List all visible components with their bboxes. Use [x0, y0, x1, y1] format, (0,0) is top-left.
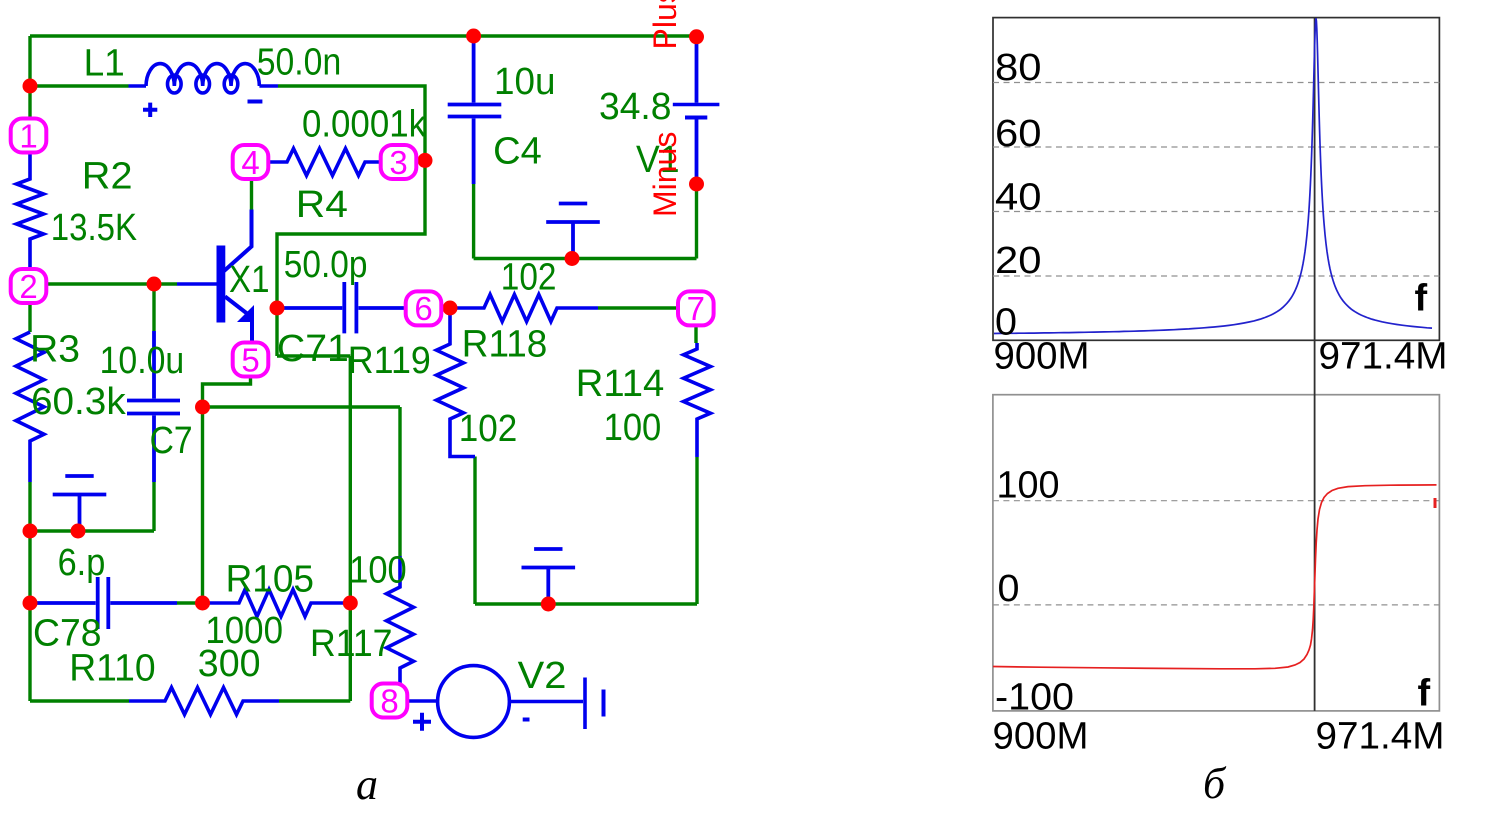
svg-text:4: 4 [241, 144, 259, 181]
resistor R114 [684, 343, 711, 457]
svg-text:300: 300 [198, 643, 261, 685]
capacitor C78 [30, 577, 177, 629]
svg-text:0: 0 [998, 568, 1020, 610]
svg-text:971.4M: 971.4M [1319, 336, 1448, 378]
chart 1 gridlines [993, 83, 1439, 277]
junction node1-L1 [23, 79, 38, 94]
svg-text:V2: V2 [518, 655, 567, 697]
svg-text:R119: R119 [348, 340, 431, 382]
wire R119 bottom rail [473, 457, 476, 605]
node 8 [372, 682, 408, 719]
svg-text:50.0p: 50.0p [284, 244, 368, 286]
wire junction down to C7 [152, 284, 155, 331]
junction bottom right ground [541, 597, 556, 612]
svg-text:34.8: 34.8 [599, 86, 672, 128]
svg-text:L1: L1 [84, 43, 125, 85]
resistor R4 [268, 149, 381, 176]
svg-text:60: 60 [995, 113, 1042, 155]
svg-text:Plus: Plus [647, 0, 683, 50]
battery V1 [673, 37, 720, 184]
svg-text:f: f [1415, 277, 1428, 319]
junction top V1 [689, 29, 704, 44]
V2 minus mark [523, 718, 530, 722]
wire node4 to collector [250, 177, 253, 210]
wire L1 to node3 rail and down to C71 [277, 86, 425, 356]
svg-text:100: 100 [604, 407, 662, 449]
junction left ground [71, 524, 86, 539]
chart 1 curve [994, 18, 1432, 333]
svg-text:60.3k: 60.3k [31, 381, 127, 423]
chart 2 gridlines [993, 501, 1440, 605]
svg-text:100: 100 [997, 465, 1060, 507]
wire C4 bottom rail [472, 184, 475, 259]
svg-text:C4: C4 [493, 130, 542, 172]
L1 plus terminal mark [143, 103, 157, 117]
svg-text:900M: 900M [993, 716, 1089, 758]
svg-text:6.p: 6.p [58, 542, 106, 584]
inductor L1 [129, 64, 279, 93]
cursor line [1314, 18, 1316, 711]
chart 1 frame [993, 18, 1439, 341]
wire R110 to x350 [279, 699, 350, 702]
svg-text:R118: R118 [462, 323, 548, 365]
chart 2 right edge tick [1434, 498, 1437, 508]
junction mid ground [565, 251, 580, 266]
svg-text:R114: R114 [576, 363, 665, 405]
ground bottom right [522, 549, 576, 604]
wire top rail [30, 34, 697, 37]
svg-text:80: 80 [995, 47, 1042, 89]
svg-text:20: 20 [995, 240, 1042, 282]
wire C78 to R105 junction [177, 601, 203, 604]
junction C71 left [270, 301, 285, 316]
svg-text:C7: C7 [150, 420, 193, 462]
svg-text:971.4M: 971.4M [1316, 716, 1445, 758]
wire R114 bottom lead rail [695, 457, 698, 604]
resistor R105 [203, 590, 350, 617]
svg-text:X1: X1 [229, 259, 270, 301]
svg-text:900M: 900M [994, 336, 1090, 378]
wire bottom to R110 [30, 699, 129, 702]
svg-text:10.0u: 10.0u [100, 340, 185, 382]
junction x202 top [195, 400, 210, 415]
node 4 [233, 144, 269, 181]
wire node2 to base junction [45, 282, 177, 285]
junction node6-R118-R119 [443, 301, 458, 316]
ground left [53, 476, 107, 531]
junction left rail C7 [23, 524, 38, 539]
node 2 [11, 268, 47, 305]
svg-text:R110: R110 [69, 647, 155, 689]
chart 2 frame [993, 395, 1440, 711]
wire R118 to node7 [598, 306, 679, 309]
wire x400 to R117 [398, 407, 401, 556]
junction C78-R105 [195, 596, 210, 611]
resistor R3 [16, 332, 44, 482]
svg-text:13.5K: 13.5K [51, 207, 137, 249]
ground mid [546, 204, 600, 259]
wire left rail lower [28, 482, 31, 701]
svg-text:6: 6 [414, 290, 432, 327]
capacitor C7 [127, 331, 180, 482]
wire vertical x350 [349, 356, 352, 701]
wire junction x202 vertical [201, 407, 204, 603]
capacitor C71 [277, 282, 406, 333]
svg-text:f: f [1418, 673, 1431, 715]
wire node7 to R114 [694, 324, 697, 343]
transistor X1 [217, 210, 255, 344]
svg-text:Minus: Minus [647, 132, 683, 217]
junction V1 minus [689, 177, 704, 192]
svg-text:R2: R2 [82, 155, 133, 197]
resistor R110 [129, 688, 279, 715]
wire mid rail under C4 [474, 257, 697, 260]
wire V1 minus rail [695, 184, 698, 259]
source V2 [406, 666, 603, 738]
chart 2 curve [993, 485, 1437, 669]
svg-text:2: 2 [19, 268, 37, 305]
junction top C4 [466, 29, 481, 44]
wire base lead of X1 [177, 282, 217, 286]
node 3 [381, 144, 417, 181]
wire C7 bottom to left rail [30, 482, 154, 531]
junction R105-x350 [343, 596, 358, 611]
junction left rail C78 [23, 596, 38, 611]
svg-text:1: 1 [19, 117, 37, 154]
V2 plus mark [413, 713, 431, 731]
wire node5 to junction [203, 375, 251, 407]
L1 minus terminal mark [248, 100, 263, 104]
svg-text:8: 8 [380, 682, 398, 719]
wire left rail upper (to node 1) [28, 36, 31, 120]
resistor R119 [437, 308, 476, 457]
svg-text:R3: R3 [30, 329, 80, 371]
svg-text:0.0001k: 0.0001k [302, 103, 427, 145]
resistor R117 [387, 556, 414, 685]
svg-text:R105: R105 [226, 559, 314, 601]
junction node3 [418, 153, 433, 168]
capacitor C4 [448, 36, 502, 184]
junction base [147, 277, 162, 292]
node 1 [11, 117, 47, 154]
svg-text:а: а [356, 760, 378, 809]
node 5 [233, 341, 269, 378]
svg-text:10u: 10u [494, 61, 556, 103]
svg-text:5: 5 [241, 341, 259, 378]
svg-text:R4: R4 [296, 184, 348, 226]
wire node2 to R3 [28, 301, 31, 332]
svg-text:100: 100 [349, 550, 407, 592]
node 7 [678, 290, 714, 327]
svg-text:102: 102 [459, 408, 518, 450]
svg-text:C71: C71 [277, 328, 349, 370]
svg-text:R117: R117 [310, 623, 393, 665]
resistor R118 [441, 295, 598, 322]
wire bottom right rail [475, 602, 697, 605]
node 6 [406, 290, 442, 327]
svg-text:б: б [1203, 759, 1227, 808]
svg-text:7: 7 [687, 290, 705, 327]
wire y407 horizontal [203, 405, 401, 408]
wire node1 junction to L1 [30, 84, 129, 87]
svg-text:3: 3 [389, 144, 407, 181]
svg-text:-100: -100 [995, 677, 1074, 719]
wire C71 box bottom [277, 354, 350, 357]
svg-text:40: 40 [995, 176, 1042, 218]
svg-text:50.0n: 50.0n [257, 42, 341, 84]
resistor R2 [17, 152, 44, 271]
svg-text:102: 102 [501, 256, 557, 298]
